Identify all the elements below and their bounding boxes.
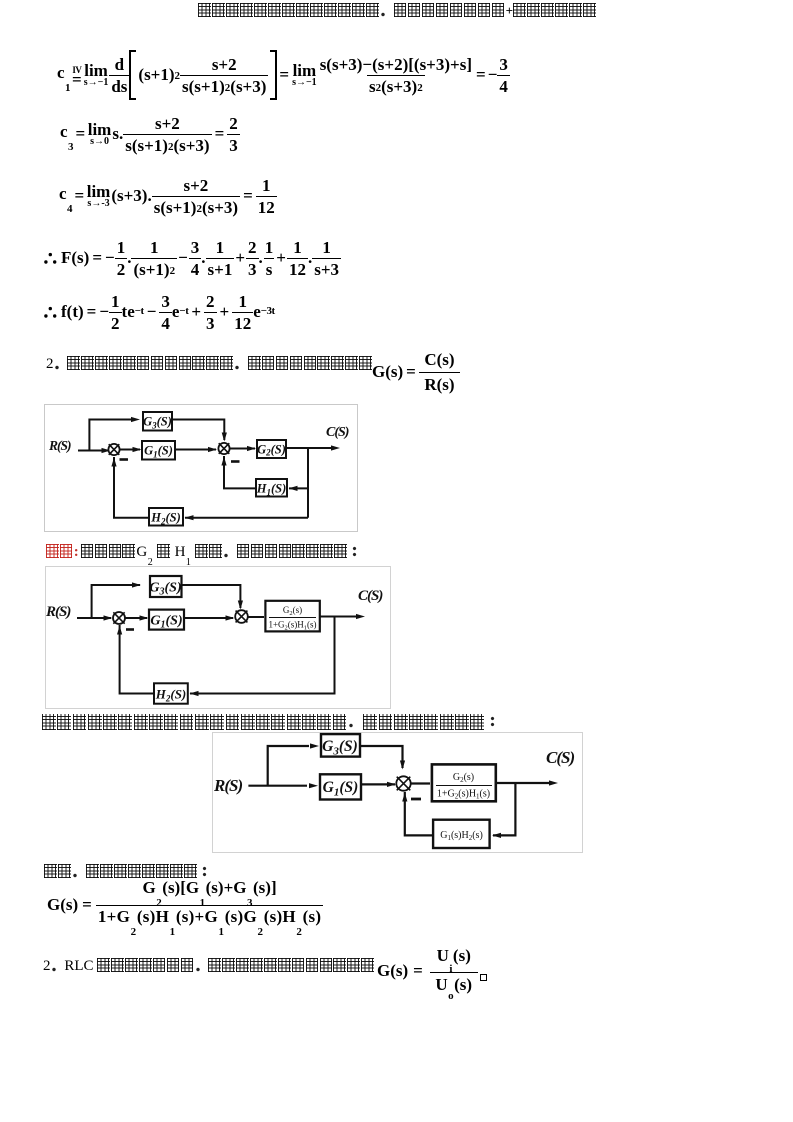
wire arrowhead bbox=[310, 743, 319, 748]
wire arrowhead bbox=[117, 626, 122, 635]
wire arrowhead bbox=[208, 447, 217, 452]
minus sign at junction 1 bbox=[120, 458, 129, 461]
svg-text:H2(S): H2(S) bbox=[155, 687, 187, 704]
wire G3 to junction top bbox=[360, 746, 403, 768]
wire G1 to junction 2 bbox=[175, 449, 216, 451]
wire arrowhead bbox=[331, 445, 340, 450]
formula c4 bbox=[59, 174, 277, 218]
frame bbox=[213, 733, 583, 853]
block G1H2 bbox=[433, 820, 490, 848]
svg-text:G2(s): G2(s) bbox=[453, 772, 474, 784]
block diagram 1 (original system) bbox=[44, 404, 358, 533]
wire into H2 bbox=[185, 517, 308, 519]
header line bbox=[198, 2, 597, 20]
wire arrowhead bbox=[356, 614, 365, 619]
G(s)=Ui/Uo bbox=[377, 944, 487, 997]
formula F(s) bbox=[44, 236, 341, 280]
block G1 bbox=[142, 441, 175, 460]
wire junction2 to block bbox=[248, 616, 264, 618]
block G2/(1+G2H1) bbox=[265, 601, 319, 632]
wire arrowhead bbox=[190, 691, 199, 696]
wire arrowhead bbox=[289, 486, 298, 491]
wire junction to block bbox=[411, 782, 430, 784]
wire H2 to junction1 bbox=[120, 625, 154, 694]
svg-text:1+G2(s)H1(s): 1+G2(s)H1(s) bbox=[437, 789, 490, 801]
wire H1 to junction2 bbox=[224, 456, 256, 488]
G(s)=C(s)/R(s) bbox=[372, 350, 460, 394]
wire feedback down bbox=[493, 783, 515, 835]
wire block to output bbox=[496, 782, 550, 784]
wire branch to G3 bbox=[92, 585, 140, 618]
svg-text:C(S): C(S) bbox=[358, 588, 383, 604]
wire arrowhead bbox=[387, 782, 396, 787]
frame bbox=[45, 405, 358, 532]
wire arrowhead bbox=[104, 615, 113, 620]
wire junction1 to G1 bbox=[120, 449, 141, 451]
wire G3 to junction2 bbox=[182, 585, 241, 608]
svg-text:G1(S): G1(S) bbox=[150, 614, 182, 631]
svg-text:R(S): R(S) bbox=[45, 604, 71, 620]
svg-text:R(S): R(S) bbox=[213, 776, 242, 795]
final transfer function G(s) bbox=[47, 880, 323, 930]
block diagram 2 (G2/H1 simplified) bbox=[45, 566, 391, 709]
svg-text:C(S): C(S) bbox=[326, 425, 349, 440]
wire into H1 bbox=[289, 487, 308, 489]
wire junction2 to G2 bbox=[230, 448, 256, 450]
block G3 bbox=[150, 576, 182, 597]
wire arrowhead bbox=[238, 601, 243, 610]
wire input R(s) bbox=[78, 450, 110, 452]
block G1 bbox=[320, 774, 361, 799]
transform note line bbox=[42, 714, 501, 731]
wire G3 to junction 2 bbox=[171, 420, 224, 441]
svg-text:G3(S): G3(S) bbox=[322, 738, 358, 758]
minus sign junction1 bbox=[126, 628, 134, 631]
wire feedback down bbox=[190, 617, 335, 694]
wire G1 to junction bbox=[361, 783, 395, 785]
block G1 bbox=[149, 610, 184, 630]
wire arrowhead bbox=[492, 833, 501, 838]
RLC problem line bbox=[43, 958, 375, 975]
wire branch to G3 bbox=[89, 420, 132, 451]
wire input R(s) bbox=[248, 785, 307, 787]
wire arrowhead bbox=[111, 458, 116, 467]
wire arrowhead bbox=[133, 447, 142, 452]
conclusion line bbox=[44, 864, 212, 881]
wire block to output bbox=[320, 616, 357, 618]
wire arrowhead bbox=[132, 582, 141, 587]
block G2 bbox=[257, 440, 286, 458]
wire arrowhead bbox=[221, 457, 226, 466]
wire arrowhead bbox=[185, 515, 194, 520]
wire arrowhead bbox=[402, 793, 407, 802]
wire input R(s) bbox=[77, 617, 111, 619]
svg-text:R(S): R(S) bbox=[48, 438, 71, 453]
wire arrowhead bbox=[247, 446, 256, 451]
svg-text:H1(S): H1(S) bbox=[256, 482, 287, 498]
wire G1 to junction2 bbox=[184, 617, 233, 619]
svg-text:G2(S): G2(S) bbox=[257, 443, 286, 458]
wire arrowhead bbox=[222, 433, 227, 442]
wire junction1 to G1 bbox=[125, 617, 147, 619]
summing junction 1 bbox=[108, 444, 119, 455]
wire arrowhead bbox=[309, 783, 318, 788]
svg-text:G1(s)H2(s): G1(s)H2(s) bbox=[440, 830, 483, 842]
wire arrowhead bbox=[226, 615, 235, 620]
svg-text:C(S): C(S) bbox=[546, 748, 574, 767]
formula f(t) bbox=[44, 290, 275, 334]
svg-text:G1(S): G1(S) bbox=[144, 444, 173, 460]
wire arrowhead bbox=[131, 417, 140, 422]
svg-text:G3(S): G3(S) bbox=[143, 415, 172, 431]
block H1 bbox=[256, 479, 287, 497]
block H2 bbox=[149, 508, 183, 526]
problem 2 statement bbox=[46, 356, 373, 373]
wire fbblock to junction bbox=[405, 792, 433, 835]
minus sign bbox=[411, 798, 421, 801]
wire output node down to H1 and H2 bbox=[307, 448, 309, 518]
answer line bbox=[46, 544, 362, 563]
wire arrowhead bbox=[549, 780, 558, 785]
svg-text:G3(S): G3(S) bbox=[149, 581, 181, 598]
summing junction 1 bbox=[113, 612, 125, 624]
wire arrowhead bbox=[400, 761, 405, 770]
frame bbox=[46, 567, 391, 709]
svg-text:H2(S): H2(S) bbox=[150, 511, 181, 527]
block G3 bbox=[321, 734, 360, 757]
block H2 bbox=[154, 683, 188, 703]
svg-text:G1(S): G1(S) bbox=[323, 779, 359, 799]
summing junction bbox=[396, 776, 410, 790]
wire arrowhead bbox=[102, 448, 111, 453]
minus sign at junction 2 bbox=[231, 460, 240, 463]
summing junction 2 bbox=[218, 443, 229, 454]
formula c3 bbox=[60, 112, 240, 156]
wire G2 to output bbox=[286, 447, 332, 449]
summing junction 2 bbox=[235, 610, 248, 623]
block G3 bbox=[143, 412, 172, 431]
wire H2 to junction1 bbox=[114, 457, 149, 518]
block diagram 3 (summing point moved) bbox=[212, 732, 583, 853]
block G2/(1+G2H1) bbox=[432, 764, 496, 801]
formula c1 bbox=[57, 51, 510, 99]
wire arrowhead bbox=[140, 615, 149, 620]
wire branch to G3 bbox=[268, 746, 309, 786]
